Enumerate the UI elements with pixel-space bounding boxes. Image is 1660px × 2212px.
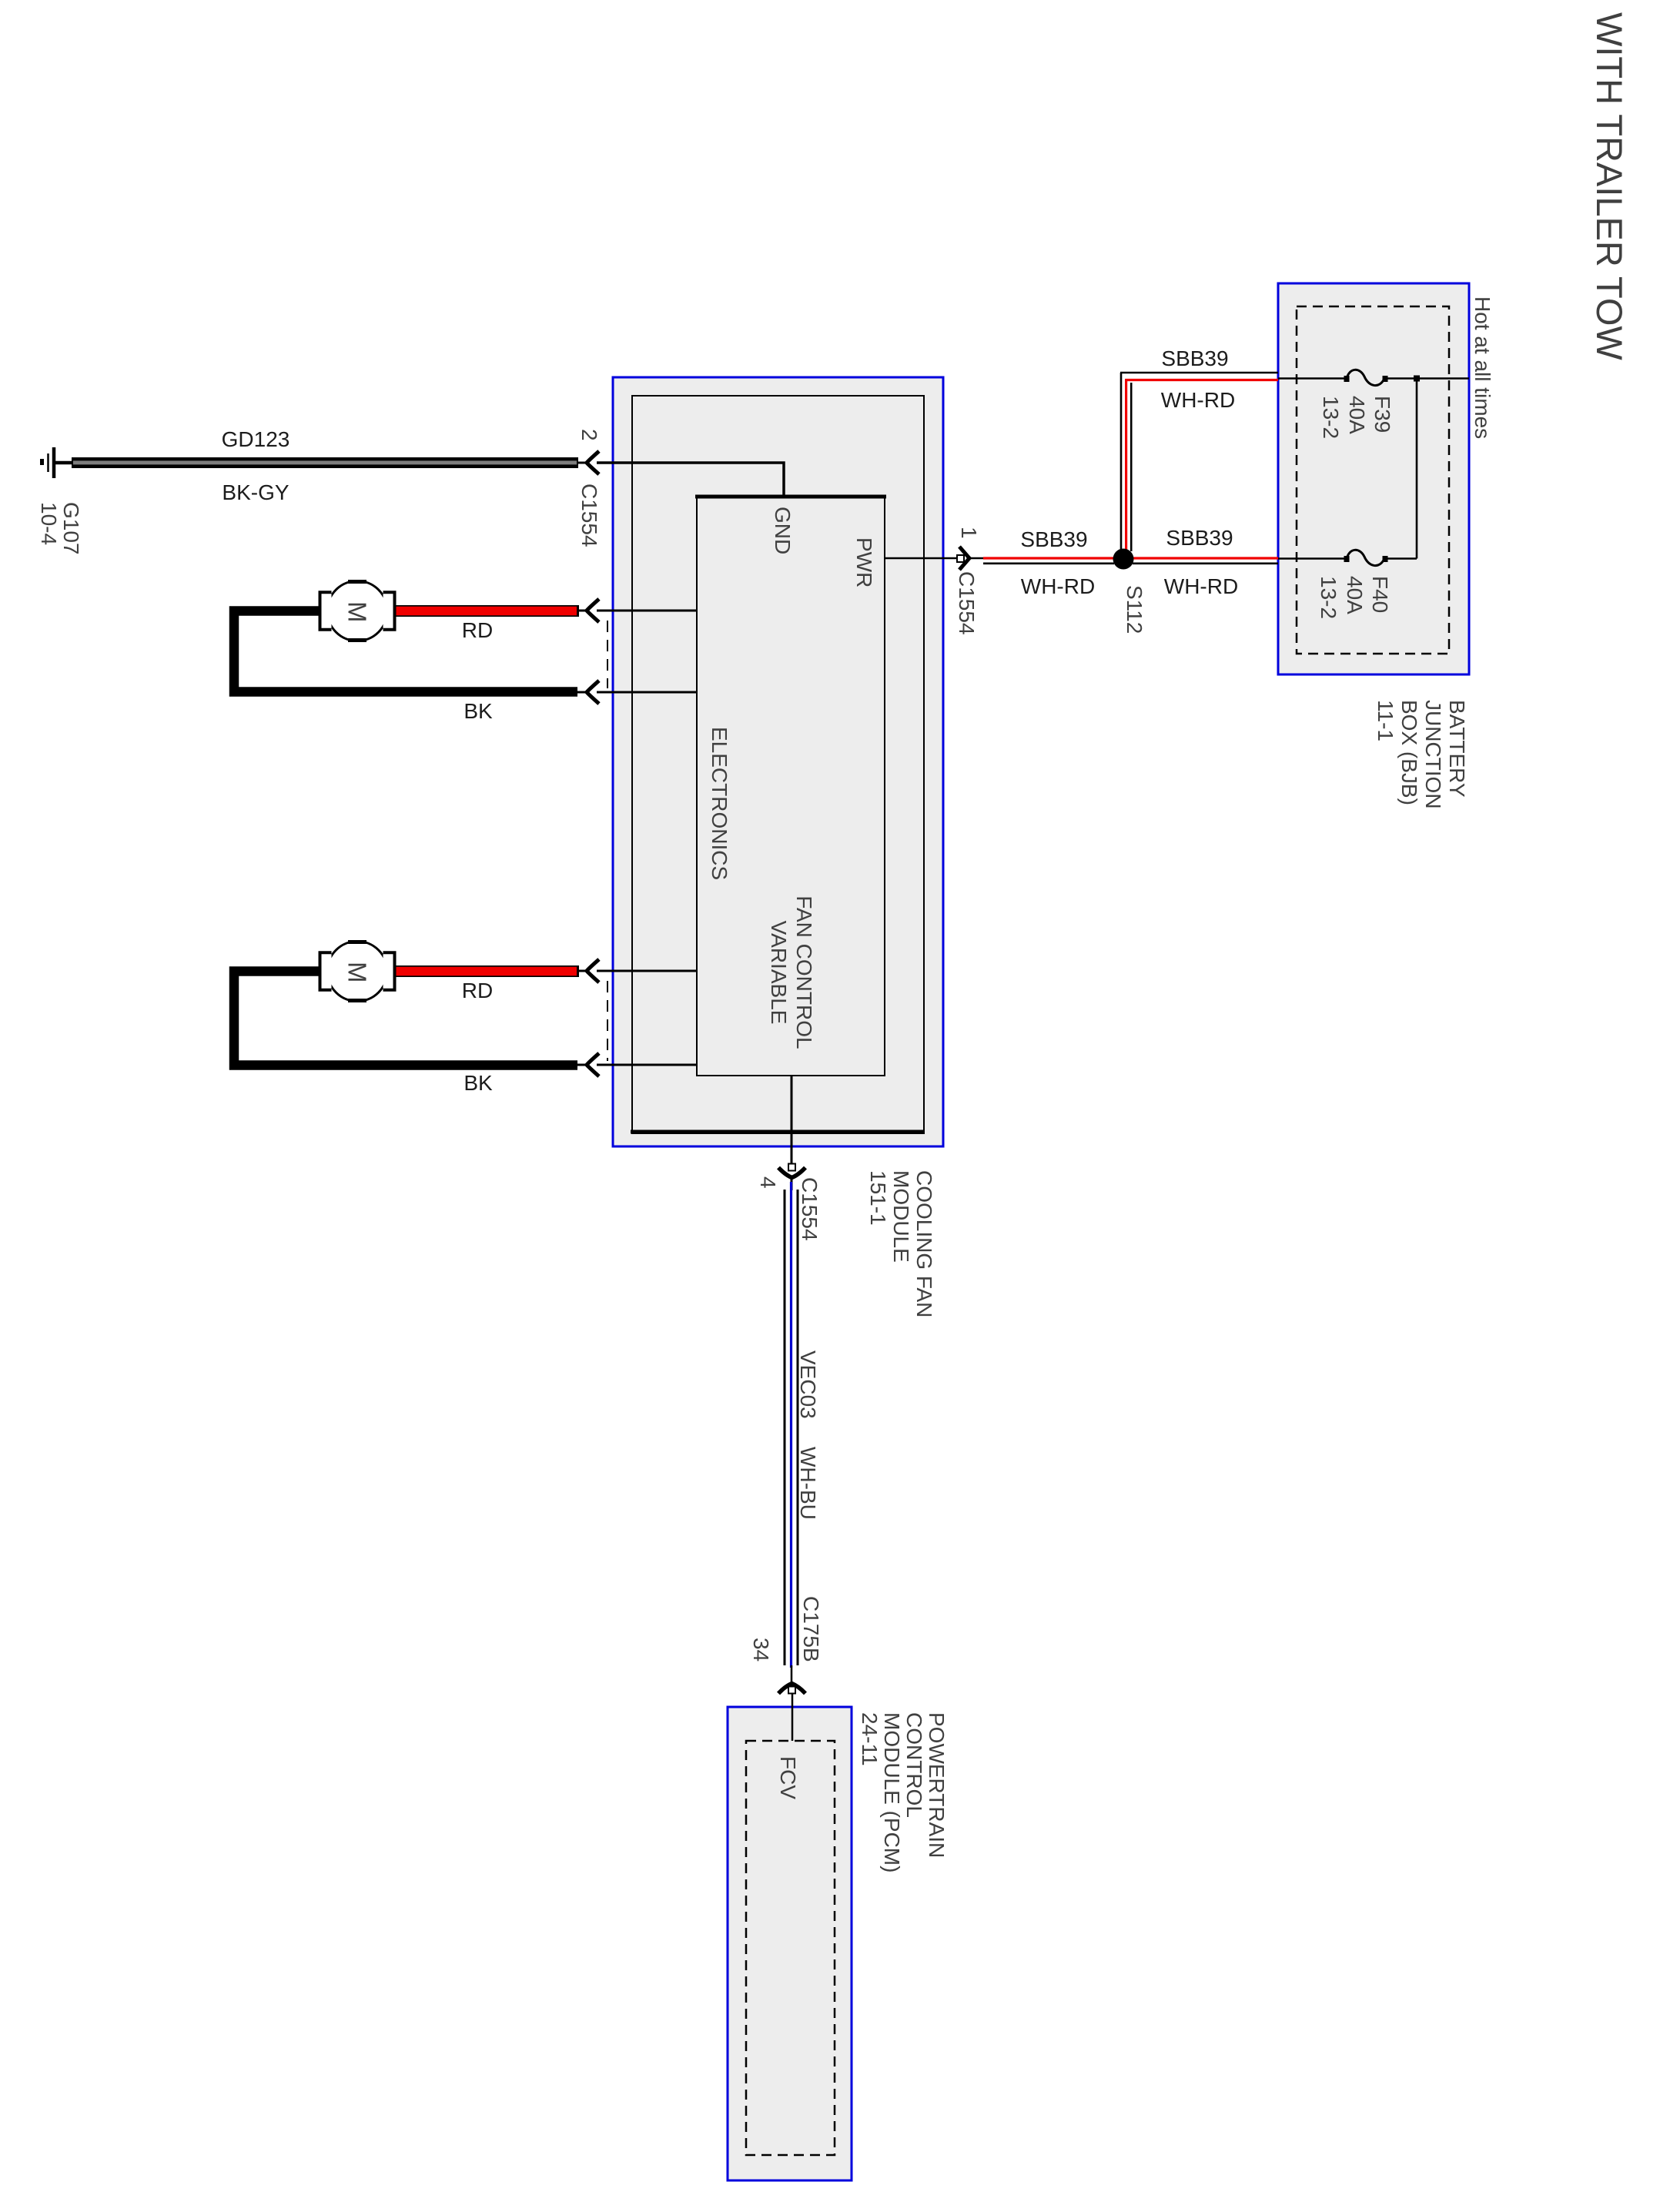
wire SBB39 WH-RD top run to BJB	[1120, 372, 1278, 374]
svg-text:MODULE (PCM): MODULE (PCM)	[880, 1712, 904, 1872]
wire GD123 BK-GY ground wire	[72, 457, 578, 468]
wire RD2 stub inside module	[597, 970, 698, 972]
svg-text:11-1: 11-1	[1374, 700, 1397, 741]
pin 4 square bead	[788, 1164, 795, 1171]
wire BK2 stub inside module	[597, 1064, 698, 1066]
svg-text:GND: GND	[771, 507, 795, 554]
fuse F40 wire into BJB	[1278, 557, 1347, 560]
svg-text:10-4: 10-4	[37, 502, 61, 545]
wire stub BK1	[577, 691, 589, 694]
junction node hot bus	[1414, 376, 1420, 382]
motor M2 RD wire	[396, 965, 579, 977]
BJB inner dashed box	[1297, 306, 1449, 654]
fuse F39 wire into BJB	[1278, 377, 1347, 380]
electronics box thick bottom edge	[631, 1130, 925, 1134]
fuse F40	[1344, 556, 1350, 562]
svg-text:M: M	[343, 601, 372, 623]
svg-text:PWR: PWR	[852, 537, 876, 587]
motor M1 BK wire	[234, 611, 577, 692]
wire stub pin2	[578, 462, 589, 464]
svg-text:ELECTRONICS: ELECTRONICS	[708, 727, 731, 880]
connector arrow BK1 C1554	[587, 681, 599, 704]
svg-text:F39: F39	[1371, 396, 1394, 433]
connector arrow BK2 C1554	[587, 1053, 599, 1076]
svg-text:G107: G107	[59, 502, 83, 555]
svg-text:FCV: FCV	[776, 1756, 800, 1799]
svg-text:13-2: 13-2	[1319, 396, 1343, 439]
svg-text:MODULE: MODULE	[889, 1170, 913, 1263]
svg-text:C175B: C175B	[799, 1596, 823, 1662]
svg-text:C1554: C1554	[955, 571, 979, 635]
svg-text:POWERTRAIN: POWERTRAIN	[925, 1712, 949, 1858]
cooling fan module box	[613, 377, 943, 1146]
svg-text:151-1: 151-1	[866, 1170, 890, 1226]
svg-text:CONTROL: CONTROL	[902, 1712, 926, 1818]
pin 1 square bead	[957, 555, 964, 562]
svg-text:13-2: 13-2	[1317, 576, 1340, 619]
svg-text:F40: F40	[1368, 576, 1392, 613]
svg-text:2: 2	[577, 429, 601, 441]
svg-text:M: M	[343, 962, 372, 983]
svg-text:WH-RD: WH-RD	[1021, 574, 1095, 598]
svg-text:C1554: C1554	[577, 484, 601, 547]
svg-text:JUNCTION: JUNCTION	[1421, 700, 1445, 809]
svg-text:40A: 40A	[1345, 396, 1369, 434]
wire stub pin1	[969, 557, 984, 560]
svg-text:SBB39: SBB39	[1020, 527, 1087, 551]
svg-text:Hot at all times: Hot at all times	[1471, 296, 1494, 439]
connector C1554 dashed link motor2	[607, 981, 608, 1061]
svg-text:FAN CONTROL: FAN CONTROL	[792, 895, 816, 1049]
motor M2	[320, 942, 395, 1002]
wire F40 to hot bus	[1385, 557, 1417, 560]
electronics box U1	[632, 396, 924, 1133]
wire below pin4	[791, 1177, 793, 1190]
wire PWR inside module	[885, 557, 959, 560]
wire SBB39 WH-RD vertical above S112	[1120, 373, 1123, 551]
PCM inner dashed box	[746, 1741, 835, 2155]
svg-text:VEC03: VEC03	[796, 1350, 820, 1419]
svg-text:BOX (BJB): BOX (BJB)	[1397, 700, 1421, 805]
motor M1	[320, 581, 395, 641]
svg-text:S112: S112	[1123, 585, 1146, 634]
svg-text:BK: BK	[464, 1071, 493, 1095]
wire SBB39 WH-RD pin1 to S112	[983, 557, 1114, 559]
wire stub BK2	[577, 1064, 589, 1066]
wire BK1 stub inside module	[597, 691, 698, 694]
svg-text:VARIABLE: VARIABLE	[767, 921, 791, 1025]
ground G107 symbol	[40, 447, 72, 478]
powertrain control module PCM box	[728, 1707, 852, 2180]
motor M2 BK wire	[234, 972, 577, 1066]
svg-text:WH-RD: WH-RD	[1164, 574, 1238, 598]
wire FCV pin4 drop from fan control box	[791, 1076, 793, 1165]
svg-text:4: 4	[756, 1176, 780, 1189]
svg-text:34: 34	[749, 1638, 773, 1662]
svg-text:SBB39: SBB39	[1166, 526, 1233, 550]
fan control variable box thick top edge	[695, 495, 886, 499]
wire above pin34	[791, 1665, 793, 1685]
wire SBB39 WH-RD S112 to BJB	[1133, 557, 1278, 559]
connector arrow pin 4 C1554	[778, 1168, 805, 1178]
svg-text:SBB39: SBB39	[1161, 346, 1228, 370]
fan control variable box	[697, 497, 885, 1076]
svg-text:WH-BU: WH-BU	[796, 1447, 820, 1520]
svg-text:GD123: GD123	[222, 427, 290, 451]
svg-text:40A: 40A	[1343, 576, 1367, 614]
svg-text:BK-GY: BK-GY	[222, 480, 289, 504]
wire VEC03 WH-BU	[784, 1190, 786, 1665]
connector arrow pin 2 C1554	[587, 451, 599, 474]
svg-text:WITH TRAILER TOW: WITH TRAILER TOW	[1589, 12, 1630, 360]
connector arrow pin 1 C1554	[959, 547, 969, 570]
splice S112	[1113, 549, 1134, 570]
wire GND inside module	[597, 463, 784, 497]
wire into PCM to FCV	[792, 1694, 794, 1741]
svg-text:24-11: 24-11	[858, 1712, 882, 1766]
connector C1554 dashed link motor1	[607, 621, 608, 688]
battery junction box BJB outline	[1278, 283, 1469, 674]
connector arrow RD2 C1554	[587, 959, 599, 982]
svg-text:C1554: C1554	[798, 1177, 822, 1241]
fuse F39	[1344, 376, 1350, 382]
wire stub RD2	[577, 970, 589, 972]
connector arrow RD1 C1554	[587, 599, 599, 622]
svg-text:BATTERY: BATTERY	[1445, 700, 1469, 798]
motor M1 RD wire	[396, 605, 579, 617]
pin 34 square bead	[788, 1687, 795, 1694]
wire stub RD1	[577, 610, 589, 612]
wire RD1 stub inside module	[597, 610, 698, 612]
svg-text:COOLING FAN: COOLING FAN	[912, 1170, 936, 1317]
svg-text:RD: RD	[462, 979, 493, 1002]
svg-text:BK: BK	[464, 699, 493, 723]
wire F39 to hot bus	[1385, 377, 1469, 380]
svg-text:WH-RD: WH-RD	[1161, 388, 1235, 412]
svg-text:1: 1	[957, 527, 981, 539]
wire hot bus vertical	[1416, 379, 1418, 559]
connector arrow pin 34 C175B	[778, 1684, 805, 1694]
svg-text:RD: RD	[462, 618, 493, 642]
